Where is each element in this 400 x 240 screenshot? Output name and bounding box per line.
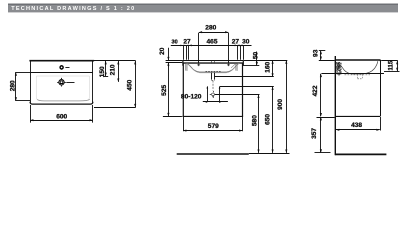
svg-text:900: 900 (277, 99, 284, 110)
dim 525 bottom extension (163, 116, 182, 118)
label 35 (slab thickness) (337, 62, 343, 68)
dim 450 line (135, 61, 137, 107)
side view: bowl section curve (336, 61, 378, 74)
dim row extensions left (183, 46, 185, 60)
dim 280 top extension (15, 72, 30, 74)
plan view: tap hole centreline dash (66, 82, 74, 84)
dim 357 label (311, 128, 318, 139)
side view: cabinet bottom (336, 115, 380, 117)
front view: slab left end cap (182, 60, 184, 65)
dim 357 line (320, 117, 322, 153)
front view: washbasin front edge band (183, 61, 244, 63)
dim 280 (front) left extension (198, 33, 200, 63)
svg-text:280: 280 (205, 25, 216, 32)
svg-text:30: 30 (172, 39, 178, 45)
svg-text:579: 579 (208, 123, 219, 130)
front view: bowl channel lines (186, 64, 237, 71)
plan view: basin front edge (30, 102, 93, 104)
svg-text:450: 450 (126, 79, 133, 90)
front view: slab right end cap (242, 60, 244, 66)
front view: drain pipe hidden lines (dashed) (211, 73, 213, 80)
dim 150 line (105, 61, 107, 76)
slab top extension (115) (381, 60, 398, 62)
dim 650 line (272, 87, 274, 153)
dim 280 line (15, 72, 17, 100)
front view: cabinet bottom (182, 115, 243, 117)
header bar (8, 4, 398, 13)
front view: washbasin top line (182, 60, 243, 62)
dim 525 label (161, 84, 168, 95)
front view: drain crosshair (212, 93, 215, 96)
trap stub right arrow (219, 87, 221, 102)
svg-text:600: 600 (56, 114, 67, 121)
dim 150 label (99, 66, 106, 77)
plan view: basin right edge (92, 62, 94, 103)
svg-text:27: 27 (232, 39, 240, 46)
front view: bowl outline (186, 63, 241, 72)
svg-text:465: 465 (206, 39, 217, 46)
dim 579 right extension (242, 117, 244, 131)
apron bottom extension (244, 65, 260, 67)
drain crosshair extension (580) (215, 94, 260, 96)
svg-text:27: 27 (183, 38, 191, 45)
side view: wall line (334, 56, 336, 155)
dim 20 bottom extension (166, 62, 183, 64)
cabinet bottom extension left (317, 117, 335, 119)
dim 150 bottom extension (103, 76, 108, 78)
trap stub left arrow (207, 87, 209, 102)
dim 20 line (168, 48, 170, 61)
dim 210 label (109, 64, 116, 75)
dim 579 line (183, 130, 243, 132)
dim 20 lower arrow (168, 62, 170, 66)
dim 579 left extension (183, 117, 185, 131)
dim 525 line (168, 62, 170, 116)
plan view: tap deck line (30, 72, 93, 74)
svg-text:525: 525 (161, 84, 168, 95)
dim 422 label (312, 85, 319, 96)
side small arrow (338, 74, 340, 76)
svg-text:93: 93 (312, 49, 319, 57)
plan view: bowl front curve (37, 99, 90, 101)
floor extension left (315, 152, 331, 154)
front view: drain centreline (dashed) (212, 81, 214, 91)
dim 600 left extension (30, 105, 32, 123)
dim 280 label (9, 80, 16, 91)
front view: tap hole section lines (212, 61, 215, 64)
svg-text:TECHNICAL DRAWINGS / S 1 : 20: TECHNICAL DRAWINGS / S 1 : 20 (11, 6, 135, 12)
side view: cabinet front edge (380, 61, 382, 117)
cabinet front extension down (380, 117, 382, 131)
dim 93 label (312, 49, 319, 57)
plan view: overflow centreline dash (65, 67, 69, 69)
bowl depth extension (160) (215, 76, 274, 78)
bowl bottom extension (115/422) (321, 73, 384, 75)
dim 20 top extension (166, 60, 183, 62)
front view: cabinet left edge (182, 63, 184, 116)
svg-text:580: 580 (251, 115, 258, 126)
dim row 30/27/465 line (171, 45, 252, 47)
plan top extension line (94, 60, 136, 62)
dim 93 line (320, 51, 322, 60)
dim 438 line (336, 129, 380, 131)
label 125 (337, 66, 343, 75)
dim 900 label (277, 99, 284, 110)
svg-text:210: 210 (109, 64, 116, 75)
svg-text:30: 30 (242, 39, 250, 46)
dim 93 top extension (319, 50, 326, 52)
side view: trap outline (dashed) (358, 74, 363, 79)
dim 115 bottom extension (384, 71, 400, 73)
dim 280 (front) line (199, 32, 229, 34)
drain level extension (650) (220, 86, 274, 88)
dim 210 line (118, 61, 120, 82)
plan view: basin rear edge (thick) (29, 60, 94, 62)
front view: left fixing point symbol (197, 64, 200, 66)
slab top extension to 900 (244, 60, 287, 62)
dim 160 label (264, 61, 271, 72)
side view: drain hidden lines (dashed) (336, 63, 338, 75)
svg-text:438: 438 (351, 122, 362, 129)
front view: right fixing point symbol (227, 64, 230, 66)
front floor line (177, 153, 249, 155)
svg-text:422: 422 (312, 85, 319, 96)
side floor line (335, 153, 386, 155)
svg-text:20: 20 (159, 47, 166, 55)
dim 160 line (272, 60, 274, 77)
dim row right boundary arrows (238, 45, 241, 47)
dim 450 label (126, 79, 133, 90)
dim 600 line (30, 120, 93, 122)
svg-text:50: 50 (253, 52, 260, 60)
dim 50 label (253, 52, 260, 60)
dim row 465 arrows (189, 45, 192, 47)
plan view: basin left edge (30, 62, 32, 103)
dim 115 label (389, 60, 395, 70)
dim 280 bottom extension (15, 100, 30, 102)
plan view: tap hole symbol (59, 79, 65, 85)
plan view: overflow hole (60, 66, 63, 69)
dim 422 line (320, 74, 322, 117)
dim 900 line (286, 60, 288, 153)
dim 580 line (258, 95, 260, 153)
svg-text:150: 150 (99, 66, 106, 77)
side view: washbasin slab top (thick) (336, 60, 381, 61)
front floor thin extension (249, 153, 290, 155)
dim 93 bottom extension (319, 60, 335, 62)
side view: bowl hidden dashes (345, 74, 371, 76)
dim row left boundary arrows (181, 45, 184, 47)
dim 115 line (397, 61, 399, 71)
dim row extensions right (237, 46, 239, 60)
svg-text:650: 650 (265, 114, 272, 125)
dim 50 line (256, 52, 258, 66)
dim 650 label (265, 114, 272, 125)
svg-text:80-120: 80-120 (181, 94, 202, 101)
svg-text:357: 357 (311, 128, 318, 139)
dim 580 label (251, 115, 258, 126)
plan view: inner bowl outline (faint) (36, 76, 89, 101)
plan bottom extension line (94, 107, 136, 109)
dim 280 (front) right extension (228, 33, 230, 63)
front view: cabinet right edge (242, 63, 244, 116)
dim 600 right extension (92, 105, 94, 123)
svg-text:280: 280 (9, 80, 16, 91)
outlet range line 80-120 (203, 101, 228, 103)
dim 20 label (159, 47, 166, 55)
svg-text:160: 160 (264, 61, 271, 72)
svg-text:115: 115 (389, 60, 395, 70)
